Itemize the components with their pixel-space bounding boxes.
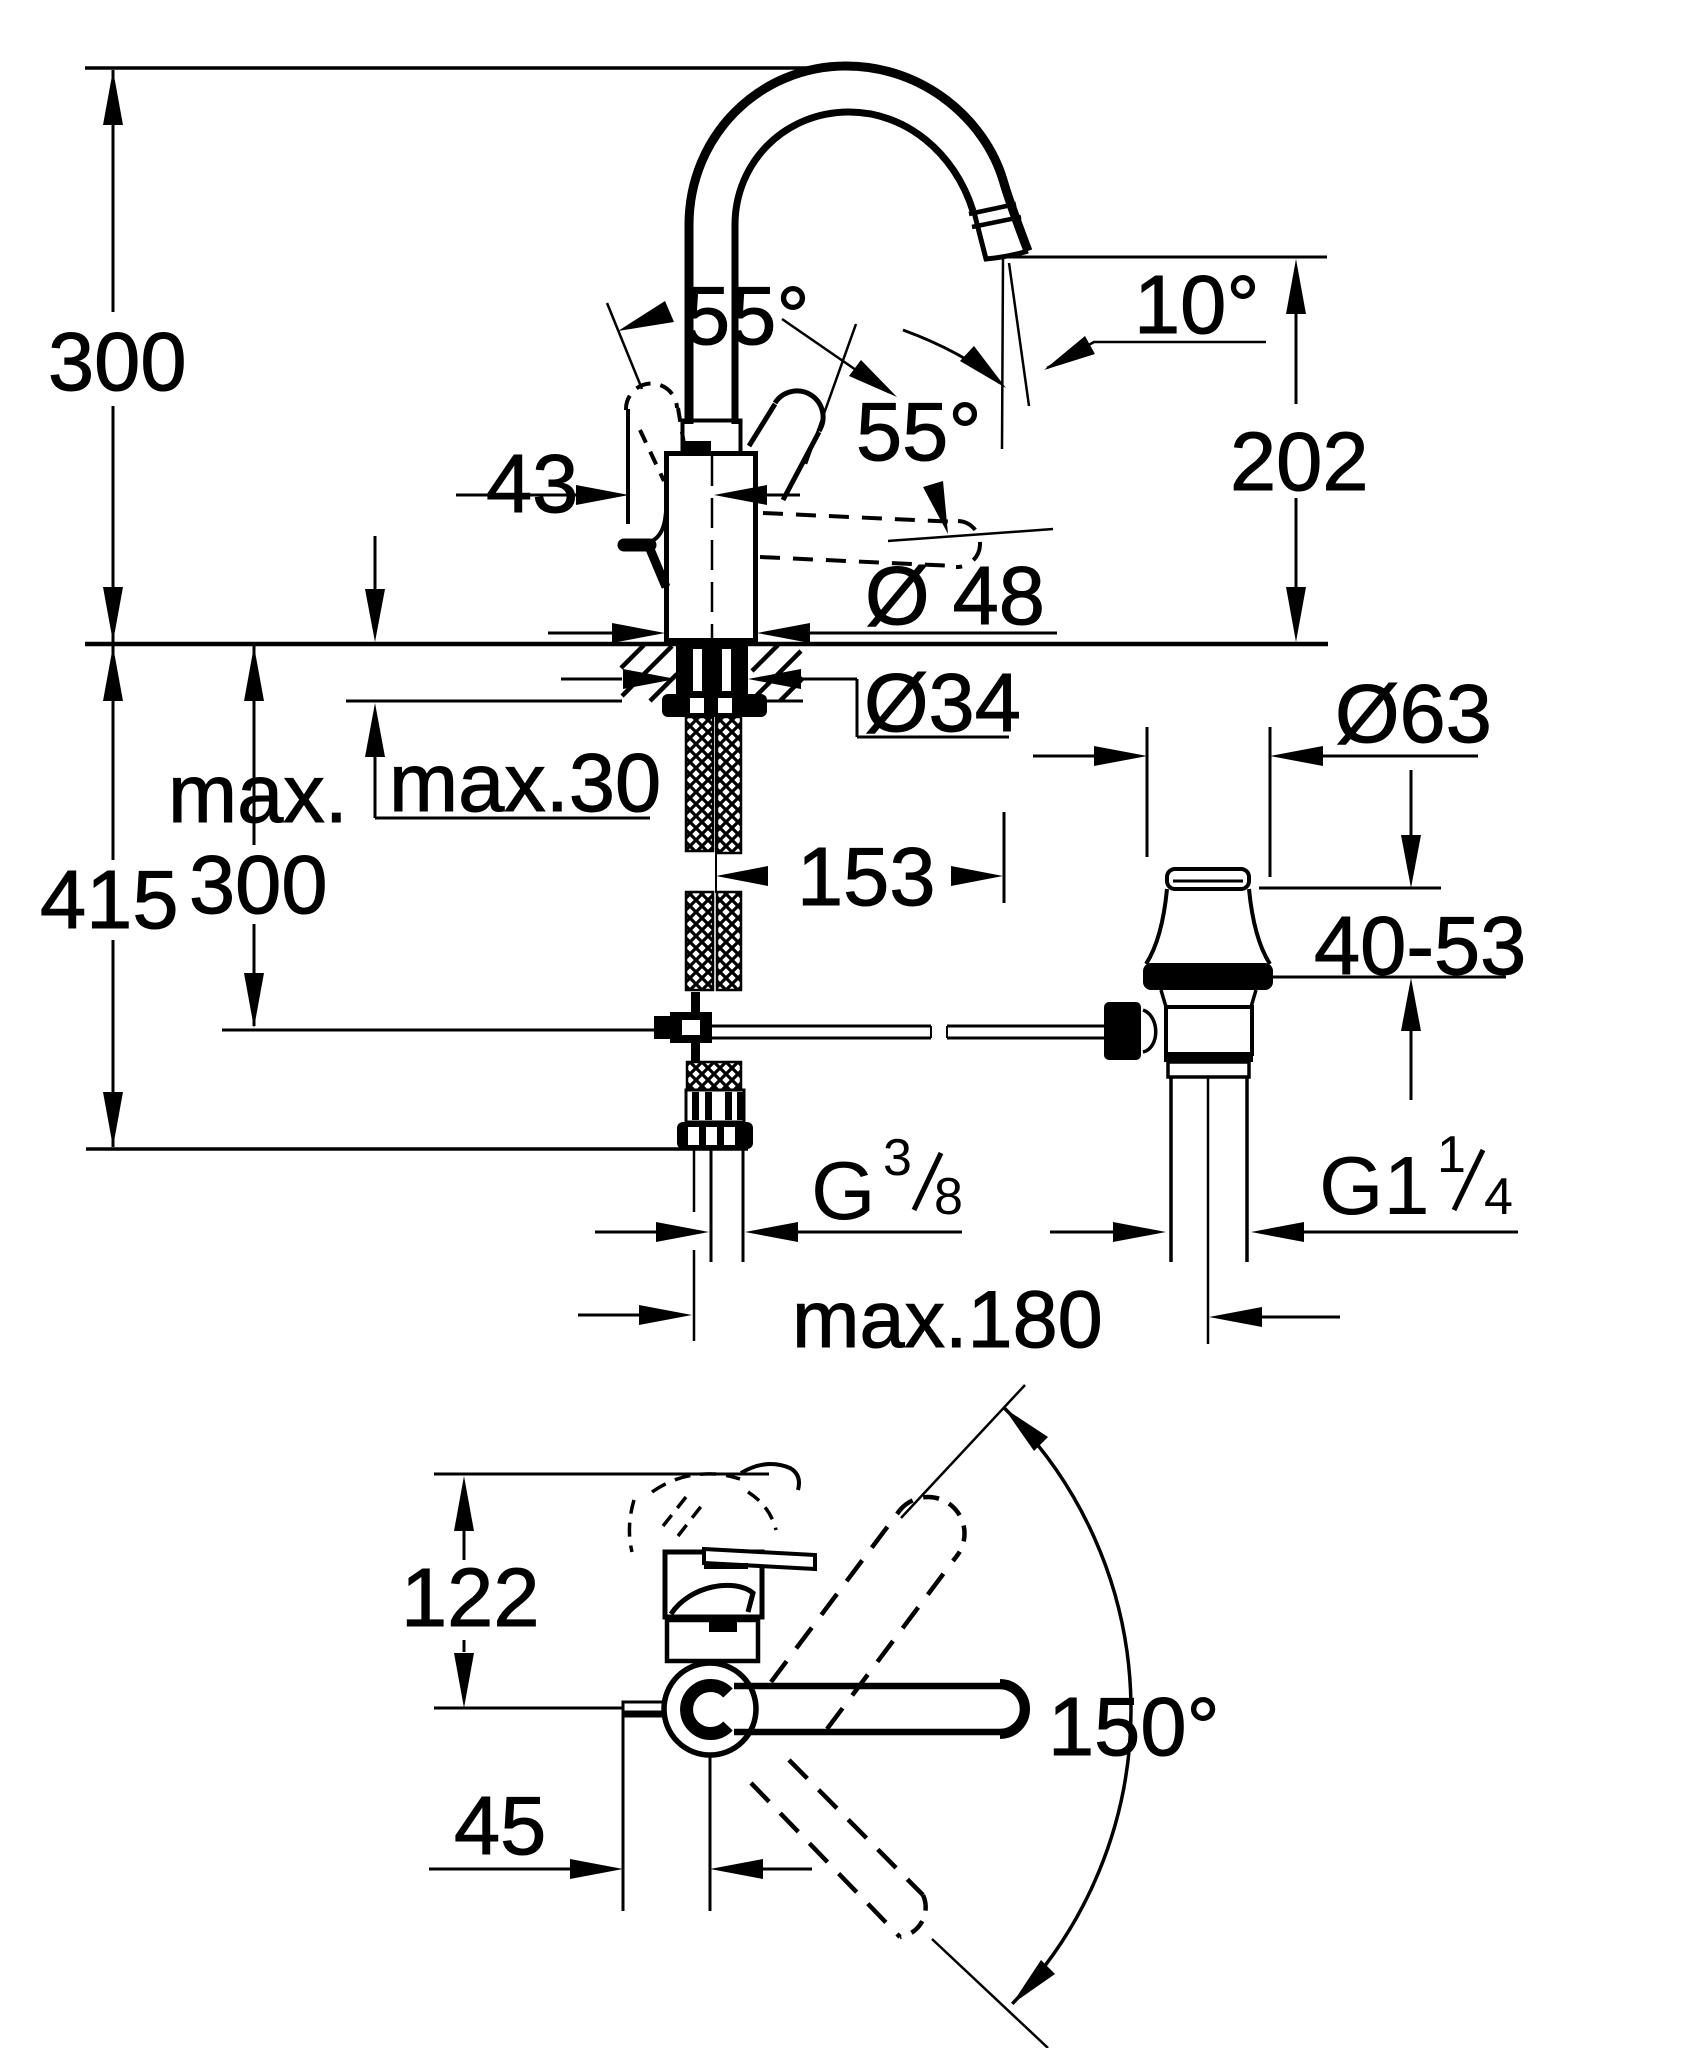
dimension Ø34 arrows: [561, 669, 1009, 737]
plan handle bar cap emphasis: [1000, 1684, 1025, 1734]
svg-text:415: 415: [40, 853, 178, 946]
pull rod vertical top: [691, 992, 700, 1012]
150° arc arrow top: [1004, 1408, 1048, 1451]
svg-text:G1: G1: [1319, 1139, 1430, 1232]
drain side jaw: [1143, 1010, 1156, 1052]
150° arc: [1005, 1408, 1131, 2004]
dimension 415 vertical: [103, 646, 123, 1147]
mounting shank: [676, 645, 748, 694]
dimension 202: [1008, 257, 1327, 642]
plan spout base tick: [709, 1622, 737, 1632]
plan dashed lever upper: [771, 1497, 965, 1729]
vertical lines below pivot: [709, 1756, 712, 1911]
hatching right patch: [752, 645, 803, 701]
shank washer: [662, 694, 767, 717]
svg-text:Ø34: Ø34: [864, 656, 1021, 749]
55° arc arrowhead left: [618, 301, 674, 331]
drain body: [1166, 1007, 1252, 1054]
dimension 300 vertical (below counter): [244, 646, 264, 1028]
underside of counter line: [346, 700, 622, 703]
svg-text:10°: 10°: [1134, 258, 1260, 351]
150° extension line bottom: [932, 1939, 1048, 2048]
plan cartridge dome arc: [671, 1585, 753, 1614]
cartridge cap: [683, 421, 741, 454]
horizontal pull rod: [712, 1026, 1106, 1038]
svg-text:55°: 55°: [856, 385, 982, 478]
150° extension line top: [901, 1385, 1025, 1518]
svg-text:max.30: max.30: [389, 736, 661, 829]
plan ghost handle curves: [629, 1464, 799, 1552]
drain tailpipe: [1171, 1077, 1247, 1344]
svg-text:150°: 150°: [1048, 1680, 1220, 1773]
faucet body: [667, 454, 756, 641]
plan dashed lever lower: [751, 1760, 926, 1937]
body dashed centerline: [711, 456, 714, 640]
svg-text:55°: 55°: [684, 269, 810, 362]
dimension 300 vertical (left top): [103, 70, 123, 642]
drain knob: [1104, 1002, 1141, 1060]
cap black insert: [684, 441, 711, 453]
plan spout base rect: [667, 1620, 758, 1661]
braided hoses section 1: [686, 717, 741, 853]
drain push cap: [1167, 869, 1249, 889]
hose centerline: [715, 717, 717, 893]
hatching left patch: [621, 645, 677, 701]
dimension 153: [716, 812, 1004, 903]
plan pivot inner ring: [687, 1686, 728, 1734]
dimension 45: [429, 1859, 812, 1879]
svg-text:122: 122: [401, 1551, 539, 1644]
10 deg leader: [1044, 336, 1266, 370]
lever axis extension line: [607, 303, 642, 389]
dimension max.180: [578, 1305, 1340, 1327]
dimension 43: [456, 485, 800, 505]
braided hoses section 2: [686, 892, 741, 990]
spout outer wall: [689, 66, 1028, 424]
drain nut: [1168, 1062, 1249, 1077]
svg-text:300: 300: [189, 838, 327, 931]
drain flange: [1143, 963, 1273, 990]
svg-text:153: 153: [797, 830, 935, 923]
dimension G1 1/4 arrows: [1050, 1222, 1518, 1242]
plan pivot outer circle: [664, 1663, 756, 1755]
svg-text:202: 202: [1230, 415, 1368, 508]
150° arc arrow bottom: [1012, 1960, 1055, 2004]
counter surface line: [85, 642, 1328, 647]
svg-text:max.: max.: [168, 747, 348, 840]
ribbed connector: [686, 1090, 744, 1122]
svg-text:1: 1: [1437, 1126, 1466, 1184]
spout inner wall: [735, 112, 973, 424]
svg-text:4: 4: [1484, 1168, 1513, 1226]
plan left tab: [623, 1702, 665, 1716]
pull rod vertical bottom: [691, 1043, 700, 1062]
dimension Ø48 arrows: [548, 623, 1057, 643]
swivel arc arrow: [903, 330, 1006, 388]
plan handle bar: [734, 1686, 1023, 1732]
max.30 lower arrow: [365, 703, 650, 818]
counter bottom reference line: [86, 1147, 748, 1151]
svg-text:8: 8: [934, 1168, 963, 1226]
svg-text:Ø63: Ø63: [1335, 667, 1492, 760]
down arrow onto dashed lever: [923, 481, 948, 534]
aerator: [969, 204, 1028, 259]
max.30 upper arrow: [365, 536, 385, 642]
leader line to dashed lever: [888, 529, 1053, 541]
solid lever hook left: [624, 504, 667, 587]
pull rod reference line left: [222, 1029, 655, 1032]
supply pipes below counter: [694, 1150, 743, 1341]
svg-text:40-53: 40-53: [1314, 899, 1526, 992]
svg-text:45: 45: [454, 1779, 546, 1872]
svg-text:300: 300: [48, 315, 186, 408]
svg-text:43: 43: [486, 437, 578, 530]
plan lower reference line: [434, 1707, 624, 1710]
ghost lever up-left dashed: [626, 384, 684, 524]
dashed horizontal lever ghost: [760, 513, 980, 567]
pull rod cross fitting: [654, 1012, 712, 1043]
braided hose section 3: [687, 1062, 741, 1090]
drain flare: [1146, 889, 1167, 964]
plan body square: [665, 1552, 762, 1617]
svg-text:max.180: max.180: [792, 1275, 1103, 1365]
svg-text:3: 3: [883, 1129, 912, 1187]
drain band: [1164, 1054, 1253, 1062]
label G1 1/4: [1319, 1126, 1513, 1232]
plan top reference line: [434, 1473, 769, 1476]
dimension G3/8 arrows: [595, 1222, 962, 1242]
label G 3/8: [811, 1129, 963, 1237]
top reference line: [85, 66, 852, 70]
dimension 40-53: [1259, 770, 1506, 1100]
coupling nut: [677, 1122, 753, 1149]
dimension 122: [454, 1476, 474, 1708]
plan lever plate: [704, 1549, 815, 1569]
ghost lever solid tilted right: [749, 391, 823, 500]
55° crossing lines: [782, 319, 885, 390]
dimension Ø63: [1033, 727, 1478, 877]
drain neck: [1161, 990, 1166, 1007]
water stream lines: [1002, 259, 1003, 449]
svg-text:G: G: [811, 1144, 876, 1237]
